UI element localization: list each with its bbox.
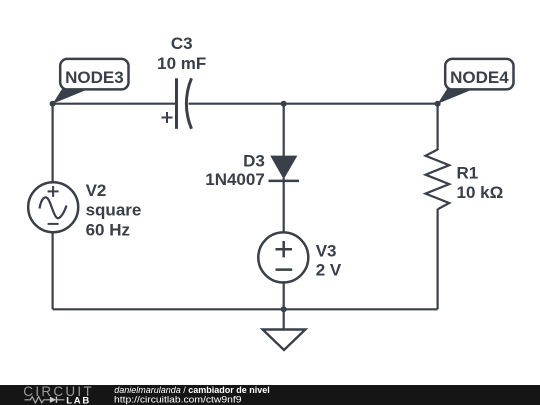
svg-text:60 Hz: 60 Hz	[86, 220, 130, 239]
label C3 10 mF	[157, 34, 206, 73]
svg-text:2 V: 2 V	[316, 260, 342, 279]
svg-text:1N4007: 1N4007	[205, 170, 265, 189]
wire: left vertical upper (NODE3 to V2)	[51, 104, 53, 183]
svg-text:R1: R1	[457, 163, 479, 182]
voltage source V2 (square wave)	[28, 182, 78, 232]
junction: diode branch on top rail	[281, 101, 287, 107]
svg-text:10 mF: 10 mF	[157, 54, 206, 73]
svg-text:V2: V2	[86, 181, 107, 200]
wire: top rail left segment (NODE3 to C3 left plate)	[53, 103, 176, 105]
diode D3	[269, 156, 300, 181]
svg-text:V3: V3	[316, 242, 337, 261]
svg-text:D3: D3	[243, 152, 265, 171]
svg-text:NODE3: NODE3	[65, 68, 124, 87]
wire: top rail right segment (C3 right plate to NODE4)	[189, 103, 438, 105]
voltage source V3 (DC)	[258, 232, 308, 282]
wire: middle vertical lower (V3 to bottom rail)	[283, 282, 285, 309]
wire: left vertical lower (V2 to bottom rail)	[51, 232, 53, 310]
label R1 10 kOhm	[457, 163, 504, 202]
node NODE4 callout	[435, 59, 514, 107]
wire: right vertical upper (NODE4 to R1)	[437, 104, 439, 150]
footer bar	[0, 385, 540, 405]
wire: bottom rail	[53, 308, 438, 310]
junction: ground tap on bottom rail	[281, 306, 287, 312]
svg-text:square: square	[86, 201, 142, 220]
label D3 1N4007	[205, 152, 265, 189]
capacitor C3 (polarized)	[162, 78, 192, 129]
ground	[263, 309, 306, 350]
svg-text:http://circuitlab.com/ctw9nf9: http://circuitlab.com/ctw9nf9	[114, 394, 242, 405]
node NODE3 callout	[50, 59, 129, 107]
resistor R1	[426, 150, 450, 210]
svg-text:NODE4: NODE4	[450, 68, 509, 87]
footer title text	[114, 385, 270, 405]
wire: right vertical lower (R1 to bottom rail)	[437, 209, 439, 309]
footer CircuitLab logo	[23, 384, 91, 405]
svg-text:LAB: LAB	[66, 396, 89, 405]
svg-text:10 kΩ: 10 kΩ	[457, 183, 504, 202]
wire: middle vertical (D3 to V3)	[283, 178, 285, 233]
label V2 square 60 Hz	[86, 181, 142, 240]
label V3 2 V	[316, 242, 342, 280]
svg-text:C3: C3	[171, 34, 193, 53]
wire: middle vertical upper (top rail to D3)	[283, 104, 285, 160]
